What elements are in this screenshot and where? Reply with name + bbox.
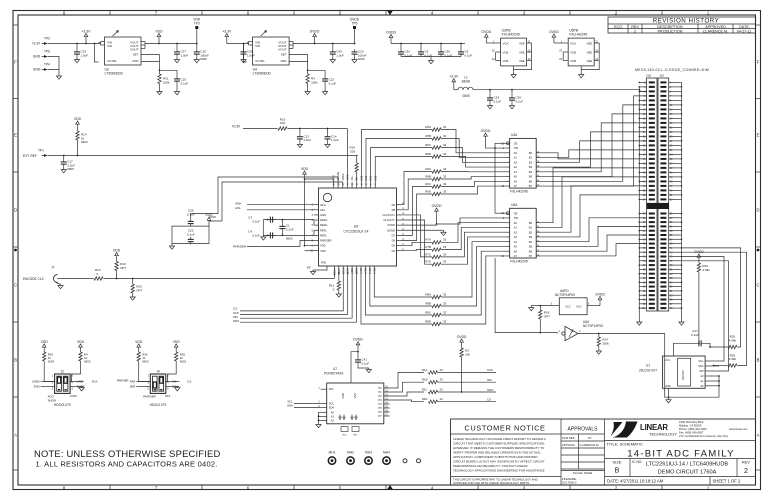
svg-text:LINEAR TECHNOLOGY HAS MADE A B: LINEAR TECHNOLOGY HAS MADE A BEST EFFORT…: [453, 437, 546, 441]
svg-text:B4: B4: [529, 170, 533, 174]
svg-text:0.1uF: 0.1uF: [252, 233, 260, 237]
svg-text:1. ALL RESISTORS AND CAPACITO: 1. ALL RESISTORS AND CAPACITORS ARE 0402…: [36, 460, 218, 469]
svg-text:D3: D3: [372, 267, 376, 271]
wire U1 nest 1 to connector: [682, 248, 741, 347]
wire R5D to U3A A3: [441, 157, 505, 168]
svg-text:1.0uF: 1.0uF: [81, 53, 89, 57]
svg-text:B2: B2: [529, 160, 533, 164]
svg-text:R7D: R7D: [425, 260, 431, 264]
wire U2 output: [145, 43, 197, 45]
border zone ticks left/right: [13, 98, 18, 100]
capacitor C22: [324, 76, 326, 79]
svg-text:A7: A7: [514, 184, 518, 188]
wire U4 SET chain: [307, 69, 309, 71]
svg-text:CLARENCE M.: CLARENCE M.: [580, 443, 600, 447]
wire R8D to U5A A7: [441, 256, 505, 324]
svg-text:R5C: R5C: [425, 143, 431, 147]
svg-text:J1E: J1E: [646, 73, 651, 77]
svg-text:+3.3V: +3.3V: [82, 29, 92, 33]
svg-text:R1A: R1A: [422, 368, 428, 372]
wire L1 rail to connector: [473, 89, 640, 91]
svg-text:CUSTOMER NOTICE: CUSTOMER NOTICE: [464, 424, 545, 433]
svg-text:VIN: VIN: [255, 44, 260, 48]
svg-text:A2: A2: [331, 419, 335, 423]
wire U7 address pins to ground: [318, 412, 320, 423]
svg-text:GND: GND: [33, 55, 41, 59]
svg-text:MH3: MH3: [365, 451, 372, 455]
ic U1 24LC02-I/ST: [663, 356, 706, 388]
svg-text:LINEAR: LINEAR: [640, 423, 668, 432]
svg-text:B0: B0: [529, 221, 533, 225]
wire VCTRL loop U4: [244, 44, 247, 63]
svg-text:A5: A5: [514, 245, 518, 249]
wire C27 to R25: [704, 343, 728, 347]
wire D3 to R8A: [374, 271, 432, 297]
connector J1E body: [647, 78, 657, 311]
svg-text:REV: REV: [742, 460, 751, 465]
wire REFH net: [263, 219, 314, 221]
wire encode clk: [60, 278, 94, 280]
wire EXT REF to R16: [48, 155, 358, 157]
op-amp U4 regulator LT3080EDD: [253, 37, 290, 65]
svg-text:MH1: MH1: [329, 451, 336, 455]
wire U1 nest 2 to connector: [682, 252, 747, 365]
svg-text:APPROVED: APPROVED: [705, 25, 726, 29]
wire connector right ground rail: [681, 82, 683, 313]
resistor R32 with VDD: [138, 347, 140, 352]
ground U5PB: [580, 73, 582, 75]
svg-text:PAR/SER: PAR/SER: [143, 395, 155, 399]
svg-text:0603: 0603: [286, 237, 293, 241]
svg-text:4.99k: 4.99k: [729, 357, 737, 361]
capacitor C16 100uF: [196, 49, 198, 52]
capacitor C13: [299, 134, 301, 137]
wire D1 to R8C: [365, 271, 432, 315]
wire VCM to ADC: [288, 128, 348, 130]
svg-text:6032: 6032: [358, 57, 365, 61]
svg-text:R1D: R1D: [422, 397, 428, 401]
wire CLKOUT+ to R7C: [401, 215, 432, 257]
wire U1 GND: [669, 388, 720, 397]
wire bus U3A B3 to connector: [541, 132, 647, 167]
size ic rev row: [605, 458, 756, 460]
svg-text:0.1uF: 0.1uF: [465, 53, 473, 57]
svg-text:A: A: [757, 433, 760, 438]
svg-text:A1: A1: [514, 156, 518, 160]
wire VCTRL loop: [95, 44, 99, 63]
ground C14: [327, 141, 329, 144]
svg-text:0.1uF: 0.1uF: [516, 99, 524, 103]
svg-text:SCL: SCL: [329, 402, 335, 406]
wire U1 address strap: [718, 376, 720, 397]
wire R7C to U5A A2: [441, 232, 505, 257]
resistor RN below U7: [341, 427, 348, 432]
svg-text:P1: P1: [378, 390, 382, 394]
svg-text:40: 40: [333, 184, 335, 186]
power DVDD arrow C41: [357, 344, 359, 351]
svg-text:A0: A0: [514, 151, 518, 155]
svg-text:C: C: [756, 283, 759, 288]
power OVDD arrow cap bank: [390, 37, 392, 43]
svg-text:100k: 100k: [163, 80, 170, 84]
wire inverter input: [495, 258, 557, 333]
svg-text:T/B: T/B: [514, 216, 518, 220]
capacitor C39: [243, 49, 245, 52]
resistor R12: [338, 271, 340, 281]
svg-text:1.0uF: 1.0uF: [303, 138, 311, 142]
svg-text:DVDD: DVDD: [350, 18, 360, 22]
svg-text:P4: P4: [378, 402, 382, 406]
inductor L1 ferrite bead: [454, 89, 458, 91]
wire bus U5A B4 to connector: [541, 218, 647, 242]
svg-text:OE: OE: [514, 211, 518, 215]
resistor R4 with VDD: [80, 347, 82, 352]
svg-text:TP6: TP6: [44, 50, 50, 54]
svg-text:U3A: U3A: [511, 133, 518, 137]
wire J4 side nets: [136, 381, 150, 383]
wire R8B to U5A A5: [441, 246, 505, 306]
svg-text:0603: 0603: [48, 360, 55, 364]
svg-text:LT3080EDD: LT3080EDD: [253, 72, 272, 76]
svg-text:F: F: [14, 60, 17, 65]
resistor R19: [115, 262, 118, 271]
svg-text:A3: A3: [514, 165, 518, 169]
svg-text:31: 31: [374, 184, 376, 186]
svg-text:E: E: [14, 133, 17, 138]
approvals box: [604, 419, 606, 485]
wire bus U5A B1 to connector: [541, 177, 647, 228]
svg-text:GND: GND: [320, 213, 326, 217]
svg-text:0603: 0603: [84, 360, 91, 364]
svg-text:B: B: [14, 358, 17, 363]
svg-text:FXLH42245: FXLH42245: [510, 260, 528, 264]
resistor R20: [132, 279, 134, 285]
ground C37: [176, 57, 178, 60]
wire D4 to R7B: [401, 250, 432, 251]
svg-text:OVDD: OVDD: [481, 30, 491, 34]
wire R7D to U5A A3: [441, 237, 505, 264]
svg-text:100: 100: [280, 121, 285, 125]
svg-text:A0: A0: [331, 410, 335, 414]
svg-text:SER: SER: [130, 384, 136, 388]
svg-text:REV: REV: [631, 25, 639, 29]
svg-text:PAR/SER: PAR/SER: [233, 245, 247, 249]
svg-text:VDD: VDD: [341, 393, 345, 399]
ground C19: [176, 84, 178, 92]
svg-text:SUPPLIED FOR USE WITH LINEAR T: SUPPLIED FOR USE WITH LINEAR TECHNOLOGY …: [453, 481, 529, 485]
svg-text:0603: 0603: [142, 360, 149, 364]
wire D6 to R6D: [401, 194, 432, 240]
svg-text:A6: A6: [514, 249, 518, 253]
wire connector left ground rail: [638, 87, 640, 313]
svg-text:2.2uF: 2.2uF: [286, 227, 294, 231]
svg-text:U1: U1: [646, 364, 650, 368]
capacitor C17: [63, 159, 65, 162]
wire CLKOUT- to R7D: [401, 220, 432, 264]
svg-text:VDD: VDD: [74, 117, 82, 121]
svg-text:VCB: VCB: [570, 50, 576, 54]
svg-text:B2: B2: [529, 230, 533, 234]
svg-text:NOTE: UNLESS OTHERWISE SPECIF: NOTE: UNLESS OTHERWISE SPECIFIED: [34, 448, 220, 459]
wire bus U5A B7 to connector: [541, 244, 647, 256]
svg-text:A3: A3: [514, 235, 518, 239]
svg-text:33: 33: [365, 184, 367, 186]
wire R29 down to C27 rail: [698, 272, 700, 343]
svg-text:VDD: VDD: [135, 340, 143, 344]
svg-text:R5A: R5A: [425, 125, 431, 129]
resistor R33 with VDD: [43, 347, 45, 352]
svg-text:VERIFY PROPER AND RELIABLE OPE: VERIFY PROPER AND RELIABLE OPERATION IN …: [453, 450, 541, 454]
svg-text:EP: EP: [307, 266, 311, 270]
wire R7B to U5A A1: [441, 227, 505, 249]
svg-text:0.1uF: 0.1uF: [181, 81, 189, 85]
svg-text:DESCRIPTION: DESCRIPTION: [657, 25, 683, 29]
capacitor C33: [76, 49, 78, 52]
power OVDD arrow U5PB: [553, 37, 555, 43]
capacitor C35: [440, 49, 442, 52]
svg-text:33: 33: [443, 310, 447, 314]
svg-text:0.1uF: 0.1uF: [252, 219, 260, 223]
ground C25 loop: [171, 244, 173, 247]
revision history table: [608, 17, 756, 33]
svg-text:LTC2261IUJ-14: LTC2261IUJ-14: [343, 230, 368, 234]
svg-text:OE: OE: [514, 141, 518, 145]
svg-text:33: 33: [440, 368, 444, 372]
svg-text:VCTRL: VCTRL: [107, 59, 117, 63]
svg-text:33: 33: [443, 167, 447, 171]
svg-text:B4: B4: [529, 240, 533, 244]
svg-text:0.1uF: 0.1uF: [187, 232, 195, 236]
svg-text:TP1: TP1: [38, 149, 44, 153]
svg-text:REF: REF: [31, 154, 37, 158]
svg-text:B3: B3: [529, 165, 533, 169]
svg-text:CLKOUT-: CLKOUT-: [383, 218, 395, 222]
svg-text:R5B: R5B: [425, 134, 431, 138]
svg-text:VCB: VCB: [570, 59, 576, 63]
svg-text:VDD: VDD: [77, 340, 85, 344]
svg-text:24LC02: 24LC02: [681, 370, 685, 380]
svg-text:2: 2: [744, 468, 748, 475]
svg-text:OVDD: OVDD: [595, 292, 605, 296]
wire AIN+: [247, 204, 314, 206]
svg-text:P0: P0: [378, 386, 382, 390]
svg-text:U9: U9: [354, 225, 359, 229]
svg-text:A1: A1: [331, 415, 335, 419]
svg-text:PAR/SER: PAR/SER: [117, 378, 129, 382]
ic U5A FXLH42245: [510, 208, 537, 258]
ground cap bank: [430, 57, 432, 61]
svg-text:www.linear.com: www.linear.com: [729, 427, 748, 431]
power OVDD arrow R2: [461, 342, 463, 348]
ground C41: [368, 368, 370, 370]
wire D5 to R7A: [401, 242, 432, 245]
svg-text:33: 33: [443, 245, 447, 249]
svg-text:OVDD: OVDD: [387, 223, 395, 227]
svg-text:R7B: R7B: [425, 245, 431, 249]
svg-text:VSS: VSS: [353, 393, 357, 399]
svg-text:APPROVALS: APPROVALS: [568, 427, 599, 433]
ic U5PB FXLH42245: [568, 38, 594, 66]
ground R3: [307, 84, 309, 92]
ground C22: [324, 84, 326, 92]
svg-text:R8A: R8A: [425, 292, 431, 296]
svg-text:VREF: VREF: [341, 173, 345, 180]
connector J2 HD2X3-079: [55, 374, 71, 393]
svg-text:VEE: VEE: [587, 41, 593, 45]
svg-text:PAR: PAR: [130, 379, 135, 383]
svg-text:J2: J2: [61, 370, 65, 374]
svg-text:SCK: SCK: [92, 379, 98, 383]
ground DGND: [443, 230, 445, 232]
ground R20: [132, 293, 134, 297]
svg-text:33: 33: [443, 125, 447, 129]
svg-text:33: 33: [443, 182, 447, 186]
power DVDD arrow: [314, 36, 316, 41]
svg-text:CM: CM: [172, 379, 176, 383]
svg-text:CS: CS: [187, 379, 191, 383]
svg-text:0603: 0603: [81, 140, 88, 144]
svg-text:J10: J10: [659, 73, 664, 77]
svg-text:B3: B3: [529, 235, 533, 239]
svg-text:SCALE: NONE: SCALE: NONE: [573, 471, 593, 475]
wire R6D to U3A A7: [441, 186, 505, 194]
wire D13 to R5A: [361, 130, 432, 183]
wire R8C to U5A A6: [441, 251, 505, 315]
ground C39: [243, 57, 245, 60]
svg-text:LT3080EDD: LT3080EDD: [105, 72, 124, 76]
ground TP net: [58, 73, 60, 76]
svg-text:B5: B5: [529, 175, 533, 179]
svg-text:1630 McCarthy Blvd.: 1630 McCarthy Blvd.: [679, 420, 704, 424]
wire OVDD to U7 VDD: [351, 352, 358, 383]
ground C13: [299, 141, 301, 144]
svg-text:HD2X3-079: HD2X3-079: [54, 403, 71, 407]
svg-text:R6B: R6B: [425, 174, 431, 178]
ic U9 pin names top: [333, 182, 335, 188]
svg-text:VDD: VDD: [173, 340, 181, 344]
power OVDD arrow U5A: [436, 211, 438, 216]
svg-text:SHDN: SHDN: [48, 399, 56, 403]
svg-text:+3.3V: +3.3V: [222, 29, 232, 33]
svg-text:TP2: TP2: [44, 37, 50, 41]
svg-text:U5A: U5A: [511, 203, 518, 207]
svg-text:D5: D5: [392, 244, 396, 248]
svg-text:J4: J4: [156, 370, 160, 374]
svg-text:B5: B5: [529, 245, 533, 249]
wire VDD arrow to U9: [304, 174, 306, 179]
svg-text:+3.3V: +3.3V: [32, 42, 41, 46]
svg-text:Fax: (408) 434-0507: Fax: (408) 434-0507: [679, 430, 704, 434]
svg-text:SIZE: SIZE: [613, 460, 622, 465]
wire U7 P2 to R1C: [384, 392, 424, 396]
svg-text:1.0uF: 1.0uF: [331, 138, 339, 142]
wire R14 to EXT REF: [77, 140, 79, 156]
svg-text:VEE: VEE: [519, 41, 525, 45]
power VDD arrow R19: [116, 255, 118, 261]
power VDD arrow: [158, 36, 160, 41]
svg-text:6032: 6032: [200, 57, 207, 61]
capacitor C19: [176, 76, 178, 79]
power OVDD arrow U6PD: [599, 299, 601, 305]
ground C20: [354, 57, 356, 60]
svg-text:P2: P2: [378, 394, 382, 398]
svg-text:A1: A1: [700, 379, 704, 383]
wire bus U3A B4 to connector: [541, 123, 647, 172]
svg-text:VDD: VDD: [320, 244, 326, 248]
svg-text:VCA: VCA: [570, 41, 576, 45]
svg-text:NC7SP14P5X: NC7SP14P5X: [583, 324, 604, 328]
svg-text:GND: GND: [665, 384, 671, 388]
svg-text:CS: CS: [487, 398, 491, 402]
svg-text:LTC2261IUJ-14 / LTC6409HUDB: LTC2261IUJ-14 / LTC6409HUDB: [646, 461, 728, 467]
svg-text:OPT: OPT: [120, 266, 126, 270]
svg-text:VOUT: VOUT: [278, 48, 287, 52]
svg-text:B: B: [757, 358, 760, 363]
resistor R25: [728, 345, 737, 348]
svg-text:0.1uF: 0.1uF: [329, 81, 337, 85]
svg-text:AIN+: AIN+: [235, 202, 242, 206]
svg-text:HD2X3-079: HD2X3-079: [150, 403, 167, 407]
svg-text:33: 33: [443, 189, 447, 193]
svg-text:SDO: SDO: [233, 319, 240, 323]
svg-text:VCC: VCC: [565, 305, 571, 309]
wire SDA to R26: [714, 365, 728, 367]
svg-text:14-BIT ADC FAMILY: 14-BIT ADC FAMILY: [627, 448, 734, 459]
svg-text:OPT: OPT: [544, 314, 550, 318]
svg-text:REFH: REFH: [320, 218, 327, 222]
ground C36: [511, 103, 513, 106]
svg-text:TP5: TP5: [352, 22, 358, 26]
svg-text:VCB: VCB: [503, 50, 509, 54]
connector J10 body: [658, 78, 669, 311]
svg-text:IC NO.: IC NO.: [632, 460, 642, 464]
svg-text:R6D: R6D: [425, 189, 431, 193]
capacitor C41: [357, 357, 359, 360]
capacitor C14: [327, 134, 329, 137]
wire U7 P0 to R1A: [384, 372, 424, 388]
ground J2: [81, 387, 83, 388]
ground R12: [338, 290, 340, 294]
wire SENSE VREF rails: [209, 216, 216, 218]
resistor R29: [697, 263, 700, 272]
resistor R26: [728, 364, 737, 367]
svg-text:33: 33: [443, 238, 447, 242]
customer notice box: [560, 419, 562, 485]
resistor R18: [539, 306, 541, 310]
wire VCM: [243, 128, 278, 130]
wire REFL net: [263, 234, 314, 236]
resistor R13: [94, 277, 103, 280]
svg-text:D9: D9: [392, 203, 396, 207]
svg-text:R8D: R8D: [425, 319, 431, 323]
svg-text:GND: GND: [33, 68, 41, 72]
svg-text:VCC: VCC: [665, 358, 671, 362]
ic U7 NC arrows: [339, 417, 341, 420]
wire bus U3A B0 to connector: [541, 153, 647, 159]
capacitor C36: [511, 95, 513, 98]
capacitor C37: [176, 49, 178, 52]
wire U7 P3 to R1D: [384, 400, 424, 402]
ic U9 LTC2261IUJ-14: [319, 188, 397, 266]
wire bus U3A B6 to connector: [541, 105, 647, 181]
ground PAD: [312, 270, 314, 272]
svg-text:VCB: VCB: [503, 59, 509, 63]
date row: [605, 476, 756, 478]
svg-text:B7: B7: [529, 184, 533, 188]
svg-text:D4: D4: [392, 249, 396, 253]
resistor R2: [460, 348, 463, 357]
ground C40: [332, 57, 334, 60]
